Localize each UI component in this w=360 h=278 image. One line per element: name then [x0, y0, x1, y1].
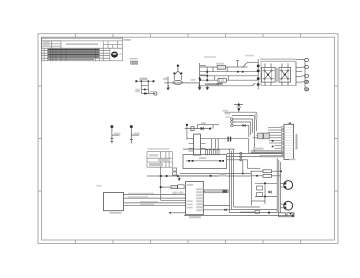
net label right — [245, 55, 254, 57]
transistor Q1 — [174, 66, 181, 80]
pin circle 2 — [231, 121, 233, 123]
net label above L1 — [216, 63, 224, 65]
junction circles — [240, 152, 242, 154]
resistor R8 — [191, 127, 194, 131]
net label small — [255, 114, 258, 120]
bus vertical bundle — [230, 149, 277, 213]
border zone tick top 1 — [75, 34, 77, 38]
test point TP1 — [110, 127, 119, 144]
bus wires to level shifter — [225, 112, 257, 154]
border zone tick top 2 — [112, 34, 114, 38]
net label VIN — [201, 122, 206, 124]
connector outline — [261, 62, 296, 86]
net label text row — [130, 58, 138, 59]
capacitor C24 — [255, 210, 259, 213]
border zone tick left B — [38, 138, 42, 140]
MCU U2 — [194, 134, 201, 155]
title block title text — [66, 43, 98, 45]
border zone tick bottom 1 — [75, 240, 77, 243]
wire to C24 — [240, 211, 255, 213]
table text smudges — [149, 154, 158, 157]
border zone tick top 5 — [225, 34, 227, 38]
filter rails — [200, 61, 259, 86]
border zone tick bottom 7 — [300, 240, 302, 243]
net labels bus — [225, 113, 231, 115]
terminal T1 — [305, 58, 309, 61]
resistor R20 — [263, 170, 272, 173]
border zone tick right C — [335, 190, 339, 192]
J1 wires — [124, 195, 186, 206]
junction dots filter — [199, 71, 244, 82]
diode D1 — [201, 127, 204, 131]
border zone tick top 3 — [150, 34, 152, 38]
arrow A2 — [272, 145, 274, 148]
net label text under rail — [205, 83, 219, 85]
wire M1 to RN1 — [203, 190, 204, 192]
terminal T5 — [305, 88, 309, 91]
terminal T4 — [305, 80, 309, 83]
border zone tick bottom 4 — [187, 240, 189, 243]
capacitor C22 — [279, 213, 286, 217]
ground arrow 2 — [206, 86, 209, 90]
module M1 — [186, 181, 204, 214]
vertical part name TXS0108E — [296, 134, 298, 149]
resistor R13 — [178, 185, 184, 189]
capacitor C12 plates — [238, 104, 240, 106]
net label rows — [173, 192, 178, 195]
rail junction dots — [257, 65, 260, 86]
power rail — [183, 139, 249, 154]
capacitor C12 — [234, 103, 243, 112]
relay K2 — [279, 64, 291, 86]
net label near buzzer — [289, 159, 296, 161]
junction dot bus bottom — [268, 212, 270, 214]
capacitor C8 — [228, 137, 229, 142]
pin circle 1 — [231, 118, 233, 120]
M1 ref label — [189, 216, 201, 218]
border zone tick top 6 — [262, 34, 264, 38]
border zone tick bottom 3 — [150, 240, 152, 243]
shield label — [199, 157, 206, 159]
border zone tick right A — [335, 85, 339, 87]
U3 pin boxes — [281, 127, 284, 157]
junction dots node rail — [199, 77, 201, 79]
highlighted net bar — [260, 58, 295, 60]
U2 pins right — [201, 139, 206, 149]
J1 ref label — [110, 212, 122, 214]
title block small labels — [43, 42, 50, 44]
capacitor C21 — [257, 193, 263, 197]
relay K1 — [262, 64, 276, 86]
resistor network RN1 — [204, 190, 228, 193]
border zone tick top 4 — [187, 34, 189, 38]
inductor L1 — [217, 65, 225, 69]
capacitor C16 — [173, 172, 177, 175]
capacitor C20 — [257, 186, 263, 190]
junction dots audio node — [264, 182, 266, 184]
wire long mid — [147, 167, 251, 200]
test point TP2 — [130, 127, 139, 144]
border zone tick bottom 2 — [112, 240, 114, 243]
bus label band 2 — [260, 155, 284, 157]
border zone tick bottom 5 — [225, 240, 227, 243]
audio sub-circuit — [251, 183, 277, 204]
wire top of module M1 — [171, 175, 218, 177]
company logo — [111, 52, 118, 58]
inductor L2 — [218, 78, 226, 82]
capacitor C5 polarized — [165, 77, 168, 89]
diode D6 on mic line — [203, 209, 231, 211]
junction dot C5 bottom — [167, 88, 169, 90]
bus label band 1 — [251, 152, 284, 154]
connector rail left — [257, 59, 259, 89]
sheet border frame group — [38, 34, 338, 244]
terminal T3 — [305, 74, 309, 77]
IC U4 — [258, 133, 263, 139]
junction dots rail — [135, 80, 154, 94]
net label above L2 — [204, 56, 216, 58]
capacitor C23 — [287, 213, 294, 217]
border zone tick bottom 6 — [262, 240, 264, 243]
shield output wires — [227, 153, 282, 173]
level shifter U3 — [284, 124, 294, 159]
U3 wires — [249, 127, 282, 156]
ferrite bead FB1 label — [140, 78, 148, 81]
U3 pin dividers — [284, 127, 294, 156]
junction dots R20 R21 — [280, 170, 282, 172]
border zone tick left A — [38, 85, 42, 87]
resistor R12 — [171, 186, 177, 189]
crystal package outline — [173, 80, 182, 84]
shield inner wire — [186, 160, 224, 162]
net label box — [219, 174, 226, 177]
wire main horizontal cluster B — [164, 82, 199, 84]
M1 pin labels — [187, 184, 203, 211]
net label C5 — [163, 78, 167, 80]
wire to terminals — [295, 59, 305, 89]
junction dot Q1 top — [177, 65, 179, 67]
wire bottom long — [171, 206, 293, 216]
terminal T2 — [305, 66, 309, 69]
net label left — [135, 89, 140, 93]
module shield box — [183, 155, 227, 169]
resistor array column — [206, 150, 219, 155]
U2 pins left — [189, 139, 194, 151]
border zone tick right B — [335, 138, 339, 140]
microphone MK1 — [284, 201, 293, 210]
sheet border outer frame — [38, 34, 338, 244]
audio bus vertical — [277, 158, 280, 213]
title block text bars — [48, 49, 99, 60]
sheet border inner frame — [42, 37, 335, 240]
pin map table — [147, 152, 172, 168]
diode D5 — [269, 191, 272, 194]
capacitor C9 — [230, 137, 231, 142]
pin circle 3 — [231, 124, 233, 126]
jumper JP1 — [131, 61, 138, 64]
buzzer BZ1 — [284, 181, 293, 190]
wire entry arrow left — [169, 212, 171, 214]
IC U5 — [264, 133, 270, 139]
junction dot mid rail — [206, 75, 208, 77]
shield pads — [188, 160, 224, 162]
junction dots power loop — [186, 124, 188, 126]
net labels mid — [253, 148, 264, 150]
border zone tick left C — [38, 190, 42, 192]
junction dots C23 — [290, 213, 292, 215]
connector J1 — [104, 193, 124, 211]
U3 ref label — [289, 122, 292, 124]
title block table — [42, 37, 123, 61]
resistor R21 — [263, 174, 272, 177]
arrow A1 — [272, 140, 274, 143]
wire node rail — [136, 81, 156, 93]
R20 wires — [250, 171, 281, 205]
ground arrow 1 — [198, 83, 201, 90]
capacitor C15 — [173, 168, 177, 171]
sheet number label LP-186 — [124, 39, 132, 41]
power circuit top — [185, 125, 219, 140]
wire vertical node — [200, 63, 206, 88]
relay internal pin grid — [262, 68, 291, 83]
output pin circle — [154, 92, 157, 95]
J1 wire labels — [128, 193, 154, 194]
net label mid — [191, 79, 196, 81]
junction dot top module wire — [210, 175, 212, 177]
diode D3 — [243, 124, 246, 127]
ground symbol — [167, 85, 171, 88]
border zone tick top 7 — [300, 34, 302, 38]
diode D2 — [146, 92, 148, 94]
